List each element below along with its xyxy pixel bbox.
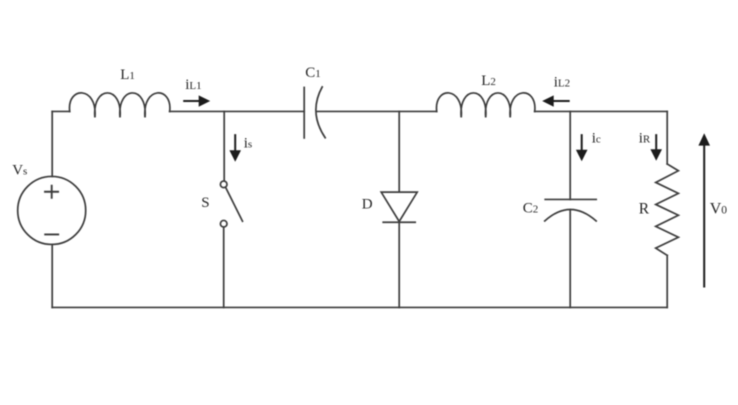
- inductor L1: [69, 93, 169, 118]
- svg-text:C1: C1: [305, 65, 321, 81]
- wire C2 branch top: [569, 111, 571, 199]
- svg-text:L2: L2: [481, 73, 496, 89]
- svg-text:iL1: iL1: [185, 77, 201, 93]
- wire R branch top: [666, 111, 668, 164]
- diode D: [381, 192, 417, 222]
- svg-text:L1: L1: [120, 67, 135, 83]
- svg-text:S: S: [201, 195, 209, 211]
- current arrow is: [229, 134, 241, 162]
- svg-text:D: D: [362, 196, 373, 212]
- wire switch branch top: [223, 111, 225, 181]
- resistor R: [656, 164, 679, 255]
- voltage source Vs: [18, 176, 86, 244]
- wire bottom rail: [52, 306, 667, 308]
- wire top rail from C1 to L2: [317, 110, 437, 112]
- current arrow ic: [576, 134, 588, 161]
- svg-text:iL2: iL2: [554, 74, 570, 90]
- wire left branch bottom (Vs to bottom rail): [51, 244, 53, 307]
- wire R branch bottom: [666, 255, 668, 307]
- current arrow iL1: [183, 95, 210, 106]
- output voltage arrow V0: [698, 133, 710, 287]
- inductor L2: [436, 93, 534, 118]
- current arrow iR: [650, 134, 662, 161]
- capacitor C2: [545, 199, 597, 221]
- wire diode branch bottom: [398, 222, 400, 307]
- svg-text:C2: C2: [523, 200, 539, 216]
- svg-text:is: is: [244, 135, 252, 151]
- wire C2 branch bottom: [569, 210, 571, 308]
- wire top rail from L2 to right corner: [535, 110, 668, 112]
- wire left branch top (Vs to top rail): [51, 111, 53, 176]
- switch S: [220, 181, 242, 227]
- wire top rail left segment: [52, 110, 69, 112]
- svg-text:R: R: [639, 200, 650, 217]
- wire switch branch bottom: [223, 227, 225, 307]
- wire top rail from L1 to C1: [170, 110, 305, 112]
- capacitor C1: [304, 87, 325, 138]
- svg-text:Vs: Vs: [12, 162, 27, 178]
- wire diode branch top: [398, 111, 400, 192]
- current arrow iL2: [542, 95, 570, 106]
- svg-text:ic: ic: [592, 130, 601, 146]
- svg-text:V0: V0: [710, 200, 728, 217]
- svg-text:iR: iR: [639, 130, 651, 146]
